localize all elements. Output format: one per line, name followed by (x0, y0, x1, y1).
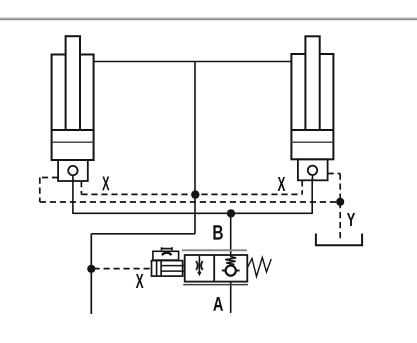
cylinder CYL1 piston bottom line (52, 141, 94, 143)
node: junction of X line and centre drop (191, 190, 199, 198)
throttle symbol arrowhead (197, 272, 201, 276)
wire: V1 outlet drop (72, 179, 74, 214)
wire: port B drop into main valve (230, 213, 232, 255)
pilot actuator divider 1 (156, 261, 158, 277)
main valve body divider (213, 255, 215, 282)
label A (213, 297, 223, 311)
pilot check valve V2 body (under CYL2) (298, 159, 328, 180)
pilot actuator top box (153, 251, 179, 260)
pilot line X vertical stub under V1 (80, 181, 82, 194)
throttle symbol arcs (196, 261, 203, 270)
drain line Y drop to tank (339, 202, 341, 240)
pilot check valve V1 poppet circle (68, 166, 77, 175)
main valve top rail (182, 249, 247, 251)
drain line Y stub from V2 right port (328, 173, 341, 175)
cylinder CYL2 piston top line (291, 129, 333, 131)
drain line Y right vertical upper (339, 174, 341, 203)
main valve bottom rail (183, 284, 248, 286)
cylinder CYL2 (right) (291, 36, 333, 180)
wire: left supply drop (90, 234, 92, 314)
cylinder CYL2 rod (305, 36, 319, 130)
cylinder CYL1 (left) (52, 36, 94, 181)
drain line Y stub from V1 left port (40, 177, 58, 179)
pilot check valve V1 stem (72, 175, 74, 181)
cylinder CYL2 barrel (291, 54, 333, 159)
drain line Y left vertical (39, 178, 41, 203)
label B (213, 225, 222, 239)
wire: centre drop from header (194, 62, 196, 234)
check valve seat ticks (222, 269, 240, 271)
cylinder CYL1 piston top line (52, 129, 94, 131)
wire: elbow run to the left (91, 233, 195, 235)
pilot actuator adjuster top bar (161, 248, 172, 250)
pilot check valve V2 stem (312, 175, 314, 180)
pilot actuator adjuster end ticks (162, 247, 173, 250)
pilot actuator adjuster arc (162, 253, 172, 255)
drain line Y: dashed (40, 174, 340, 240)
wire: rod-end header line between cylinders (94, 61, 292, 63)
pilot line X horizontal run (81, 193, 302, 195)
node: junction on left supply drop (87, 265, 95, 273)
drain line Y horizontal run (40, 201, 340, 203)
main valve MV1 (182, 250, 271, 284)
check valve spring in right cell (225, 256, 236, 266)
pilot line X: dashed cross line (81, 180, 302, 194)
wire: solid manifold line A-side (73, 212, 312, 214)
pilot actuator body (152, 261, 183, 277)
node: junction of Y line at right (336, 198, 344, 206)
pilot line X vertical stub under V2 (301, 180, 303, 194)
tank symbol (reservoir Y) (316, 234, 362, 246)
node: junction B on manifold line (227, 209, 235, 217)
main valve body (185, 255, 248, 282)
cylinder CYL1 rod (66, 36, 80, 130)
label Y (347, 213, 355, 226)
wire: port A line below main valve (230, 282, 232, 314)
pilot check valve V2 poppet circle (308, 166, 317, 175)
wire: V2 outlet drop (311, 178, 313, 214)
pilot actuator stack line 2 (161, 270, 184, 272)
label X at pilot (136, 274, 144, 288)
label X right (278, 177, 286, 191)
throttle symbol in left cell: vertical flow line (198, 256, 200, 273)
pilot actuator P1 on main valve (152, 247, 185, 276)
pilot actuator divider 2 (160, 261, 162, 277)
main valve return spring (right side) (247, 258, 271, 277)
cylinder CYL2 piston bottom line (291, 141, 333, 143)
check valve poppet circle (226, 266, 236, 276)
pilot line to valve actuator (dashed) (94, 268, 152, 270)
pilot check valve V1 body (under CYL1) (58, 160, 88, 181)
top toolbar rule (0, 17, 417, 18)
label X left (102, 176, 109, 190)
pilot actuator stack line 1 (161, 265, 184, 267)
cylinder CYL1 barrel (52, 55, 94, 161)
